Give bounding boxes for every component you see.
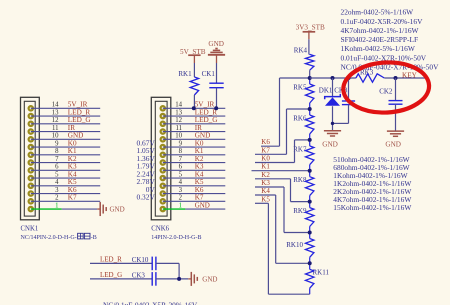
ground symbol below CK2: [385, 131, 404, 148]
net label K4 stub wire: [255, 187, 310, 263]
net label K3 stub wire: [255, 179, 310, 233]
svg-text:RK9: RK9: [293, 207, 307, 215]
resistor RK6: [293, 109, 314, 140]
svg-text:8: 8: [55, 148, 59, 155]
svg-text:0.32V: 0.32V: [137, 193, 156, 202]
ground symbol below DK1: [322, 131, 341, 149]
svg-text:1: 1: [179, 202, 182, 209]
CNK1 part number text NC/14PIN-2.0-D-H-G-B: [21, 233, 97, 241]
svg-text:8: 8: [179, 148, 183, 155]
CNK1 pin 11 wire net IR: [31, 124, 100, 132]
svg-text:5: 5: [179, 171, 183, 178]
svg-text:RK10: RK10: [286, 241, 303, 249]
resistor RK4: [294, 47, 314, 71]
svg-text:11: 11: [175, 125, 182, 132]
svg-text:3: 3: [179, 187, 183, 194]
junction dots on resistor ladder nodes: [308, 76, 312, 265]
CNK1 pin 2 wire net K7: [31, 194, 100, 202]
CNK1 pin 5 wire net K4: [31, 170, 100, 178]
svg-text:K5: K5: [261, 195, 270, 203]
svg-text:3: 3: [55, 187, 59, 194]
svg-text:GND: GND: [202, 276, 217, 284]
svg-text:4K7ohm-0402-1%-1/16W: 4K7ohm-0402-1%-1/16W: [341, 26, 419, 35]
svg-text:CK2: CK2: [379, 88, 393, 96]
capacitor CK1: [202, 70, 224, 88]
ground symbol (inverted) above CK1: [208, 40, 225, 63]
wire RK3 to KEY label: [384, 71, 425, 79]
CNK6 pin 14 wire net 5V_IR: [163, 101, 226, 109]
svg-text:10: 10: [175, 133, 182, 140]
resistor RK9: [293, 202, 314, 233]
svg-text:0.1uF-0402-X5R-20%-16V: 0.1uF-0402-X5R-20%-16V: [341, 17, 424, 26]
CNK6 pin 12 wire net LED_G: [163, 116, 226, 124]
svg-text:13: 13: [175, 109, 182, 116]
svg-text:1: 1: [55, 202, 58, 209]
power port 3V3_STB: [296, 24, 325, 40]
wire CK2 to ground: [395, 104, 397, 131]
CNK6 designator text: [151, 226, 169, 233]
svg-text:DK1: DK1: [319, 86, 333, 94]
svg-text:15Kohm-0402-1%-1/16W: 15Kohm-0402-1%-1/16W: [333, 203, 411, 212]
CNK1 pin 3 wire net K6: [31, 186, 100, 194]
svg-text:2: 2: [55, 195, 59, 202]
svg-text:CNK6: CNK6: [151, 226, 169, 233]
voltage annotations column 0.67V-0.32V: [137, 138, 156, 201]
svg-text:LED_R: LED_R: [100, 256, 122, 264]
CNK1 pin 4 wire net K5: [31, 178, 100, 186]
junction RK1 / 5V_IR: [192, 106, 196, 110]
resistor RK10: [286, 233, 314, 264]
CNK1 pin 8 wire net K1: [31, 147, 100, 155]
junction CK8 tap on KEY node: [347, 76, 351, 80]
resistor RK1: [178, 70, 198, 95]
svg-text:7: 7: [179, 156, 183, 163]
wire 3V3_STB to RK4: [308, 39, 311, 54]
svg-text:CK3: CK3: [132, 271, 146, 279]
svg-text:7: 7: [55, 156, 59, 163]
CNK6 pin 13 wire net LED_R: [163, 108, 226, 116]
svg-text:K6: K6: [261, 138, 270, 146]
svg-text:GND: GND: [322, 140, 338, 148]
CNK6 pin 11 wire net IR: [163, 124, 226, 132]
CNK6 pin 8 wire net K1: [163, 147, 226, 155]
svg-text:RK1: RK1: [178, 70, 192, 78]
svg-text:K0: K0: [261, 155, 270, 163]
svg-text:-B: -B: [91, 235, 97, 241]
wire GND to CK1: [216, 63, 218, 83]
junction CK2 tap on KEY node: [394, 76, 398, 80]
CNK6 pin 9 wire net K0: [163, 139, 226, 147]
svg-text:3V3_STB: 3V3_STB: [296, 24, 325, 32]
svg-text:RK4: RK4: [294, 47, 308, 55]
wire KEY node down to CK8: [348, 78, 350, 101]
wire DK1 anode to ground: [332, 106, 334, 130]
wire KEY to CK2: [395, 78, 397, 101]
svg-text:CNK1: CNK1: [21, 226, 39, 233]
CNK1 pads pins 1-14: [28, 105, 35, 212]
svg-text:RK11: RK11: [313, 269, 330, 277]
net label K6 stub wire: [261, 78, 310, 146]
svg-text:11: 11: [52, 125, 59, 132]
BOM text block middle right: [333, 155, 411, 212]
CNK6 pin 4 wire net K5: [163, 178, 226, 186]
CNK1 pin 13 wire net LED_R: [31, 108, 100, 116]
CNK6 pads pins 1-14: [160, 105, 167, 212]
wire CK1 to 5V_IR net: [216, 88, 218, 109]
BOM text bottom (clipped): [103, 300, 198, 305]
svg-text:NC/0.1uF-0402-X5R-20%-16V: NC/0.1uF-0402-X5R-20%-16V: [103, 300, 198, 305]
svg-text:12: 12: [175, 117, 182, 124]
CNK1 pin 7 wire net K2: [31, 155, 100, 163]
CNK6 pin 3 wire net K6: [163, 186, 226, 194]
svg-text:K7: K7: [68, 194, 77, 202]
net label K0 stub wire: [255, 140, 310, 163]
diode DK1 (ESD suppressor): [319, 86, 341, 105]
wire CK10 to ground net: [156, 263, 179, 279]
wire RK1 to 5V_IR net: [193, 95, 195, 108]
BOM text block top right: [341, 8, 440, 72]
svg-text:K4: K4: [261, 187, 270, 195]
svg-text:SFI0402-240E-2R5PP-LF: SFI0402-240E-2R5PP-LF: [341, 35, 419, 44]
net label K2 stub wire: [255, 171, 310, 202]
svg-text:4: 4: [55, 179, 59, 186]
net label LED_R wire: [90, 256, 152, 264]
wire CK3 to ground symbol: [156, 278, 191, 280]
resistor RK11: [306, 263, 330, 294]
capacitor CK10: [132, 256, 156, 270]
resistor RK3: [356, 68, 384, 82]
wire 5V_STB to RK1: [193, 63, 195, 77]
capacitor CK8: [334, 86, 355, 104]
svg-text:14: 14: [175, 102, 182, 109]
svg-text:K7: K7: [261, 146, 270, 154]
svg-text:1Kohm-0402-5%-1/16W: 1Kohm-0402-5%-1/16W: [341, 44, 415, 53]
svg-text:2: 2: [179, 195, 183, 202]
wire RK4 to KEY node: [309, 70, 311, 78]
power port 5V_STB: [180, 48, 206, 63]
junction CK1 / 5V_IR: [214, 106, 218, 110]
junction DK1 tap on KEY node: [331, 76, 335, 80]
svg-text:RK8: RK8: [293, 176, 307, 184]
CNK1 pin 14 wire net 5V_IR: [31, 101, 100, 109]
svg-text:NC/14PIN-2.0-D-H-G-: NC/14PIN-2.0-D-H-G-: [21, 235, 77, 241]
svg-text:LED_G: LED_G: [100, 271, 122, 279]
svg-text:5: 5: [55, 171, 59, 178]
svg-text:RK6: RK6: [293, 115, 307, 123]
ground symbol at CNK1 pin 1: [97, 202, 124, 216]
resistor RK8: [293, 171, 314, 202]
capacitor CK2: [379, 88, 402, 105]
CNK1 designator text: [21, 226, 39, 233]
svg-text:GND: GND: [208, 40, 224, 48]
svg-text:13: 13: [52, 109, 59, 116]
wire CK8 to DK1 ground net: [333, 105, 349, 124]
svg-text:KEY: KEY: [402, 71, 418, 79]
capacitor CK3: [132, 271, 156, 285]
svg-text:6: 6: [179, 164, 183, 171]
CNK6 part number text 14PIN-2.0-D-H-G-B: [151, 235, 201, 241]
svg-text:4: 4: [179, 179, 183, 186]
svg-text:CK10: CK10: [132, 256, 149, 264]
svg-text:CK1: CK1: [202, 70, 216, 78]
svg-text:RK7: RK7: [293, 145, 307, 153]
junction CK10 / CK3 ground wire: [177, 277, 181, 281]
svg-text:9: 9: [55, 140, 59, 147]
connector CNK1 body: [21, 97, 40, 220]
CNK1 pin 12 wire net LED_G: [31, 116, 100, 124]
svg-text:K2: K2: [261, 171, 270, 179]
CNK1 pin 10 wire net GND: [31, 132, 100, 140]
net label K1 stub wire: [252, 163, 310, 171]
net label LED_G wire: [90, 271, 152, 279]
resistor RK5: [293, 78, 314, 109]
net label K7 stub wire: [255, 109, 310, 154]
svg-text:14PIN-2.0-D-H-G-B: 14PIN-2.0-D-H-G-B: [151, 235, 201, 241]
svg-text:K3: K3: [261, 179, 270, 187]
CNK6 pin 5 wire net K4: [163, 170, 226, 178]
CNK6 pin 6 wire net K3: [163, 163, 226, 171]
CNK6 pin 10 wire net GND: [163, 132, 226, 140]
svg-text:10: 10: [52, 133, 59, 140]
svg-text:GND: GND: [195, 201, 210, 209]
CNK6 pin 2 wire net K7: [163, 194, 226, 202]
CNK1 pin 1 wire (green) to ground: [31, 202, 97, 209]
svg-text:GND: GND: [110, 206, 125, 214]
junction CK8 / DK1 ground wire: [331, 122, 334, 125]
connector CNK6 body: [151, 97, 171, 220]
wire KEY node to RK3: [310, 77, 356, 79]
svg-text:GND: GND: [385, 140, 401, 148]
CNK6 pin 7 wire net K2: [163, 155, 226, 163]
CNK1 pin 6 wire net K3: [31, 163, 100, 171]
CNK1 pin 9 wire net K0: [31, 139, 100, 147]
resistor RK7: [293, 140, 314, 171]
wire KEY node down to DK1: [332, 78, 334, 96]
svg-text:K1: K1: [261, 163, 270, 171]
svg-text:RK5: RK5: [293, 84, 307, 92]
ground symbol right of CK3: [191, 272, 217, 286]
red annotation ellipse around RK3 CK2 KEY: [342, 60, 430, 114]
CNK6 pin 1 wire (green) net GND: [163, 201, 226, 209]
net label K5 stub wire: [255, 195, 310, 294]
svg-text:12: 12: [52, 117, 59, 124]
svg-text:6: 6: [55, 164, 59, 171]
svg-text:22ohm-0402-5%-1/16W: 22ohm-0402-5%-1/16W: [341, 8, 414, 17]
svg-text:9: 9: [179, 140, 183, 147]
svg-text:14: 14: [52, 102, 59, 109]
